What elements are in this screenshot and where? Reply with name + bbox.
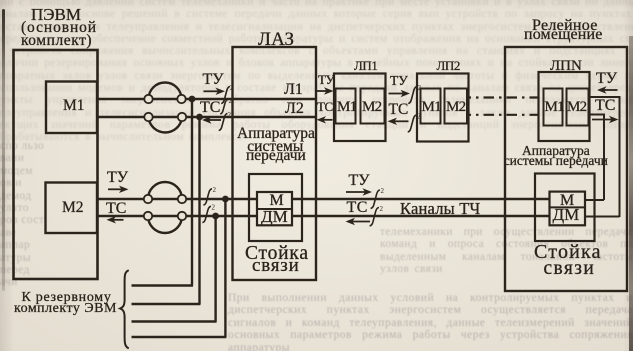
svg-text:2: 2: [228, 111, 232, 119]
svg-text:2: 2: [417, 113, 421, 121]
svg-text:2: 2: [418, 84, 422, 92]
svg-text:2: 2: [230, 84, 234, 92]
svg-text:2: 2: [380, 205, 384, 213]
svg-text:2: 2: [213, 186, 217, 194]
svg-text:2: 2: [229, 97, 233, 105]
svg-text:2: 2: [212, 204, 216, 212]
svg-text:2: 2: [381, 187, 385, 195]
